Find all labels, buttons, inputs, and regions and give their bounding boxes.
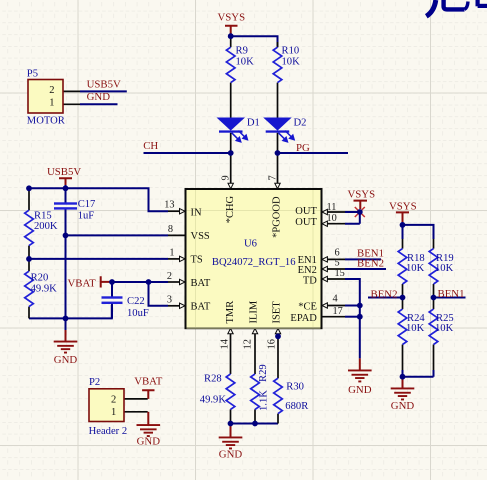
svg-text:11: 11: [327, 202, 337, 213]
svg-text:1: 1: [169, 248, 174, 259]
svg-text:R9: R9: [236, 46, 248, 57]
svg-text:R10: R10: [282, 46, 300, 57]
svg-text:*CE: *CE: [298, 302, 317, 313]
svg-text:EPAD: EPAD: [290, 313, 317, 324]
svg-text:BAT: BAT: [191, 301, 211, 312]
svg-text:VBAT: VBAT: [134, 376, 163, 388]
svg-text:TMR: TMR: [225, 301, 236, 324]
svg-text:49.9K: 49.9K: [31, 284, 58, 295]
svg-text:P5: P5: [27, 68, 38, 79]
svg-text:USB5V: USB5V: [47, 166, 81, 178]
svg-text:BEN2: BEN2: [371, 288, 398, 300]
svg-text:GND: GND: [137, 435, 161, 447]
svg-text:IN: IN: [191, 208, 202, 219]
svg-text:Header 2: Header 2: [89, 426, 128, 437]
svg-text:ISET: ISET: [271, 301, 282, 324]
svg-text:680R: 680R: [285, 401, 309, 412]
svg-text:3: 3: [167, 295, 172, 306]
svg-text:U6: U6: [244, 239, 257, 250]
svg-text:10: 10: [327, 213, 337, 224]
svg-text:P2: P2: [89, 377, 100, 388]
svg-text:10K: 10K: [406, 263, 425, 274]
svg-text:2: 2: [49, 85, 54, 96]
svg-text:17: 17: [333, 306, 343, 317]
svg-text:VBAT: VBAT: [68, 277, 97, 289]
svg-text:GND: GND: [348, 384, 372, 396]
svg-text:200K: 200K: [34, 221, 58, 232]
svg-text:VSYS: VSYS: [218, 12, 246, 24]
svg-text:VSS: VSS: [191, 231, 210, 242]
svg-text:12: 12: [243, 339, 254, 349]
svg-text:10K: 10K: [435, 323, 454, 334]
svg-text:EN2: EN2: [298, 265, 317, 276]
svg-text:GND: GND: [87, 91, 111, 103]
svg-text:D2: D2: [294, 117, 307, 128]
svg-text:GND: GND: [54, 354, 78, 366]
svg-text:GND: GND: [219, 448, 243, 460]
svg-text:OUT: OUT: [295, 206, 317, 217]
svg-text:1: 1: [49, 97, 54, 108]
svg-text:15: 15: [335, 268, 345, 279]
svg-text:D1: D1: [247, 117, 260, 128]
svg-text:5: 5: [335, 258, 340, 269]
svg-text:1uF: 1uF: [78, 211, 95, 222]
svg-text:13: 13: [164, 200, 174, 211]
svg-text:49.9K: 49.9K: [200, 394, 227, 405]
svg-text:10K: 10K: [435, 263, 454, 274]
svg-text:MOTOR: MOTOR: [27, 115, 66, 126]
svg-text:10K: 10K: [282, 57, 301, 68]
svg-text:R28: R28: [204, 374, 222, 385]
svg-text:4: 4: [333, 293, 338, 304]
svg-text:9: 9: [221, 175, 232, 180]
svg-text:C17: C17: [78, 199, 96, 210]
svg-text:1.1K: 1.1K: [259, 390, 270, 411]
svg-text:BQ24072_RGT_16: BQ24072_RGT_16: [212, 257, 296, 268]
svg-text:16: 16: [267, 339, 278, 349]
svg-text:7: 7: [268, 175, 279, 180]
svg-text:1: 1: [111, 407, 116, 418]
svg-text:R15: R15: [34, 211, 52, 222]
svg-text:TS: TS: [191, 255, 203, 266]
svg-text:VSYS: VSYS: [389, 201, 417, 213]
svg-text:R20: R20: [31, 273, 49, 284]
svg-text:BEN2: BEN2: [357, 257, 384, 269]
svg-text:C22: C22: [127, 296, 145, 307]
svg-text:BAT: BAT: [191, 278, 211, 289]
svg-text:VSYS: VSYS: [348, 189, 376, 201]
svg-text:GND: GND: [391, 400, 415, 412]
svg-text:BEN1: BEN1: [438, 288, 465, 300]
svg-text:10K: 10K: [406, 323, 425, 334]
svg-text:2: 2: [111, 395, 116, 406]
svg-text:10K: 10K: [236, 57, 255, 68]
svg-text:14: 14: [219, 339, 230, 349]
svg-text:TD: TD: [303, 275, 317, 286]
svg-text:2: 2: [167, 271, 172, 282]
svg-text:*CHG: *CHG: [225, 195, 236, 223]
svg-text:8: 8: [168, 224, 173, 235]
svg-text:PG: PG: [296, 142, 310, 154]
svg-text:R30: R30: [286, 381, 304, 392]
svg-text:CH: CH: [143, 140, 158, 152]
svg-text:R29: R29: [258, 364, 269, 382]
svg-text:OUT: OUT: [295, 217, 317, 228]
svg-text:*PGOOD: *PGOOD: [271, 196, 282, 238]
svg-text:USB5V: USB5V: [87, 79, 121, 91]
svg-text:10uF: 10uF: [127, 308, 149, 319]
svg-text:ILIM: ILIM: [249, 300, 260, 323]
